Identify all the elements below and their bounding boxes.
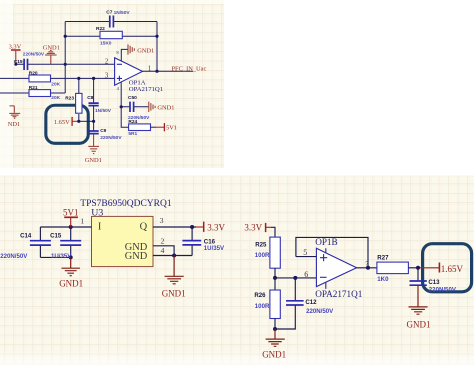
svg-text:1U/35V: 1U/35V bbox=[204, 245, 225, 252]
svg-text:Q: Q bbox=[140, 222, 148, 233]
svg-text:R26: R26 bbox=[254, 292, 266, 299]
svg-text:3.3V: 3.3V bbox=[207, 222, 225, 232]
svg-text:5R1: 5R1 bbox=[128, 131, 137, 137]
svg-text:C13: C13 bbox=[428, 279, 440, 286]
svg-text:1.65V: 1.65V bbox=[54, 119, 70, 126]
svg-text:R25: R25 bbox=[255, 242, 267, 249]
svg-text:GND1: GND1 bbox=[262, 350, 286, 360]
svg-text:C50: C50 bbox=[128, 95, 137, 101]
svg-text:220N/50V: 220N/50V bbox=[23, 52, 45, 58]
svg-text:C15: C15 bbox=[14, 59, 23, 65]
svg-text:R22: R22 bbox=[96, 26, 105, 32]
svg-text:C8: C8 bbox=[87, 95, 93, 101]
svg-text:C14: C14 bbox=[20, 232, 32, 239]
svg-text:R20: R20 bbox=[29, 70, 38, 76]
svg-text:5V1: 5V1 bbox=[63, 208, 79, 218]
svg-text:3.3V: 3.3V bbox=[244, 222, 262, 232]
svg-text:1.65V: 1.65V bbox=[441, 264, 464, 274]
svg-text:R27: R27 bbox=[377, 255, 389, 262]
svg-text:1U/35V: 1U/35V bbox=[51, 253, 72, 260]
svg-text:GND1: GND1 bbox=[59, 279, 83, 289]
svg-text:1N/50V: 1N/50V bbox=[95, 108, 112, 114]
svg-text:5V1: 5V1 bbox=[166, 125, 177, 132]
svg-text:GND1: GND1 bbox=[85, 157, 102, 164]
svg-text:15K0: 15K0 bbox=[100, 41, 112, 47]
svg-text:GND1: GND1 bbox=[137, 47, 154, 54]
svg-text:C7: C7 bbox=[106, 10, 112, 16]
svg-text:R23: R23 bbox=[65, 95, 74, 101]
svg-text:220N/50V: 220N/50V bbox=[429, 286, 457, 293]
svg-text:1: 1 bbox=[80, 217, 84, 226]
svg-text:GND1: GND1 bbox=[162, 289, 186, 299]
svg-text:220N/50V: 220N/50V bbox=[100, 135, 122, 141]
svg-text:R21: R21 bbox=[29, 85, 38, 91]
svg-text:100R: 100R bbox=[255, 303, 270, 310]
svg-text:4: 4 bbox=[161, 246, 165, 255]
svg-text:GND1: GND1 bbox=[157, 105, 174, 112]
svg-text:220N/50V: 220N/50V bbox=[306, 308, 334, 315]
svg-text:OPA2171Q1: OPA2171Q1 bbox=[129, 86, 163, 93]
svg-text:C9: C9 bbox=[100, 128, 106, 134]
svg-text:100R: 100R bbox=[255, 252, 270, 259]
svg-text:OPA2171Q1: OPA2171Q1 bbox=[315, 289, 363, 299]
svg-text:6: 6 bbox=[304, 270, 308, 279]
svg-text:1N/50V: 1N/50V bbox=[114, 10, 131, 16]
svg-text:R24: R24 bbox=[128, 119, 137, 125]
svg-text:PFC_IN_Uac: PFC_IN_Uac bbox=[172, 66, 207, 73]
svg-text:3: 3 bbox=[105, 72, 109, 79]
svg-text:2: 2 bbox=[161, 237, 165, 246]
svg-text:1: 1 bbox=[148, 65, 151, 72]
svg-text:GND1: GND1 bbox=[407, 320, 431, 330]
svg-text:7: 7 bbox=[365, 262, 368, 268]
svg-text:5: 5 bbox=[303, 248, 307, 257]
svg-text:GND: GND bbox=[125, 251, 148, 262]
svg-text:220N/50V: 220N/50V bbox=[0, 253, 28, 260]
svg-text:C12: C12 bbox=[305, 299, 317, 306]
svg-text:ND1: ND1 bbox=[8, 121, 20, 128]
svg-text:1K0: 1K0 bbox=[377, 276, 389, 283]
svg-text:2: 2 bbox=[105, 59, 109, 66]
svg-text:20K: 20K bbox=[51, 81, 60, 87]
svg-text:OP1B: OP1B bbox=[315, 237, 337, 247]
svg-text:C15: C15 bbox=[50, 232, 62, 239]
svg-text:3: 3 bbox=[160, 216, 164, 225]
svg-text:I: I bbox=[98, 222, 102, 233]
svg-text:20K: 20K bbox=[51, 95, 60, 101]
